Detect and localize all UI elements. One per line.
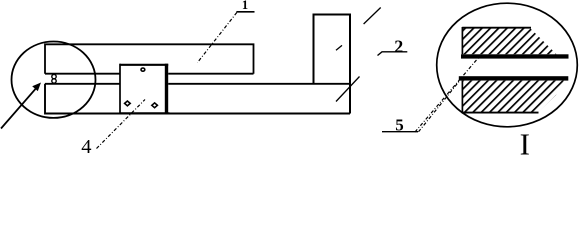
svg-text:2: 2 (394, 36, 403, 56)
bottom bar (part 2) (45, 84, 350, 114)
bottom hatched pad (463, 81, 564, 112)
view arrow (1, 83, 41, 129)
slash at bar end (336, 77, 360, 102)
strip 2 (459, 76, 569, 80)
small slash in block (336, 45, 342, 50)
pivot symbol (8) (52, 74, 56, 84)
plate top hole (141, 68, 145, 71)
top hatched pad (463, 28, 557, 54)
left detail ellipse (12, 41, 96, 117)
vertical block on bottom bar (314, 15, 351, 114)
slash top right (364, 8, 381, 25)
label 5 leaders (415, 57, 479, 132)
svg-text:1: 1 (242, 0, 248, 12)
plate bottom hole right (152, 103, 158, 108)
label 1 leader (198, 13, 237, 63)
top bar (part 1) (45, 44, 254, 73)
plate (part 4) white over bars (120, 64, 170, 115)
plate bottom hole left (125, 101, 131, 106)
detail circle (437, 3, 578, 127)
svg-text:I: I (520, 127, 530, 159)
label 4 leader (97, 100, 146, 149)
strip 1 (461, 54, 569, 58)
svg-text:4: 4 (81, 136, 91, 158)
